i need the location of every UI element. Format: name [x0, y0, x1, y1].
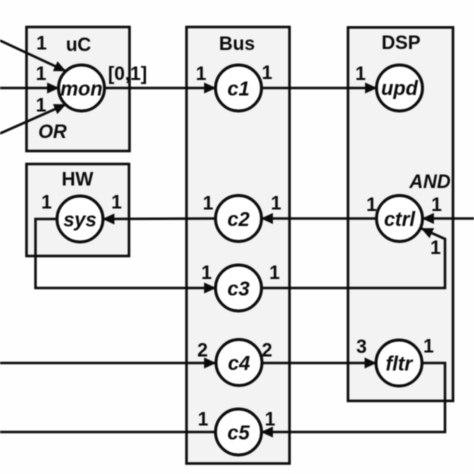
svg-text:OR: OR: [38, 122, 67, 143]
svg-text:AND: AND: [408, 172, 450, 193]
svg-text:1: 1: [36, 64, 47, 85]
svg-text:[0,1]: [0,1]: [108, 64, 147, 85]
node fltr: [376, 340, 422, 386]
svg-text:1: 1: [36, 34, 47, 55]
wire c2 to sys: [103, 217, 216, 220]
svg-text:upd: upd: [381, 78, 418, 100]
svg-text:1: 1: [262, 63, 273, 84]
wire c3 to ctrl feedback: [262, 229, 446, 289]
node c5: [216, 409, 262, 455]
svg-text:1: 1: [431, 195, 442, 216]
wire ext input to ctrl: [423, 217, 474, 220]
wire ext input to c4: [0, 362, 216, 365]
node ctrl: [377, 196, 423, 242]
svg-text:1: 1: [355, 64, 366, 85]
svg-text:1: 1: [201, 263, 212, 284]
svg-text:1: 1: [271, 194, 282, 215]
wire ctrl to c2: [262, 217, 377, 220]
svg-text:c4: c4: [228, 353, 250, 375]
svg-text:c3: c3: [227, 278, 249, 300]
node c4: [216, 340, 262, 386]
svg-text:1: 1: [203, 194, 214, 215]
svg-text:1: 1: [269, 263, 280, 284]
svg-text:1: 1: [430, 238, 441, 259]
svg-text:3: 3: [356, 337, 367, 358]
svg-text:uC: uC: [66, 35, 92, 56]
svg-text:c5: c5: [227, 422, 250, 444]
node c1: [216, 65, 262, 111]
wire c4 to fltr: [262, 362, 377, 365]
svg-text:1: 1: [196, 64, 207, 85]
wire c1 to upd: [262, 87, 377, 90]
svg-text:c2: c2: [227, 209, 249, 231]
node c3: [216, 265, 262, 311]
wire mon to c1: [105, 87, 216, 90]
svg-text:2: 2: [197, 341, 208, 362]
node mon: [59, 65, 105, 111]
box uC: [27, 27, 130, 151]
node c2: [216, 196, 262, 242]
svg-text:c1: c1: [227, 78, 249, 100]
svg-text:1: 1: [198, 410, 209, 431]
svg-text:mon: mon: [60, 79, 102, 101]
box Bus: [187, 27, 290, 464]
svg-text:1: 1: [36, 96, 47, 117]
wire ext input 1 to mon: [0, 41, 66, 72]
node sys: [57, 196, 103, 242]
svg-text:1: 1: [423, 337, 434, 358]
svg-text:1: 1: [366, 195, 377, 216]
wire ext input 2 to mon: [0, 87, 59, 90]
svg-text:DSP: DSP: [381, 33, 420, 54]
box DSP: [348, 27, 453, 401]
wire ext input 3 to mon: [0, 105, 66, 134]
svg-text:ctrl: ctrl: [384, 209, 416, 231]
svg-text:1: 1: [265, 410, 276, 431]
svg-text:Bus: Bus: [219, 34, 255, 55]
svg-text:fltr: fltr: [386, 353, 414, 375]
svg-text:1: 1: [41, 193, 52, 214]
node upd: [377, 65, 423, 111]
svg-text:sys: sys: [63, 210, 96, 232]
box HW: [27, 164, 130, 256]
wire fltr to c5: [262, 363, 446, 432]
svg-text:HW: HW: [62, 170, 94, 191]
wire c5 to ext output: [0, 431, 216, 434]
svg-text:2: 2: [262, 341, 273, 362]
wire sys to c3: [36, 219, 216, 288]
svg-text:1: 1: [111, 193, 122, 214]
